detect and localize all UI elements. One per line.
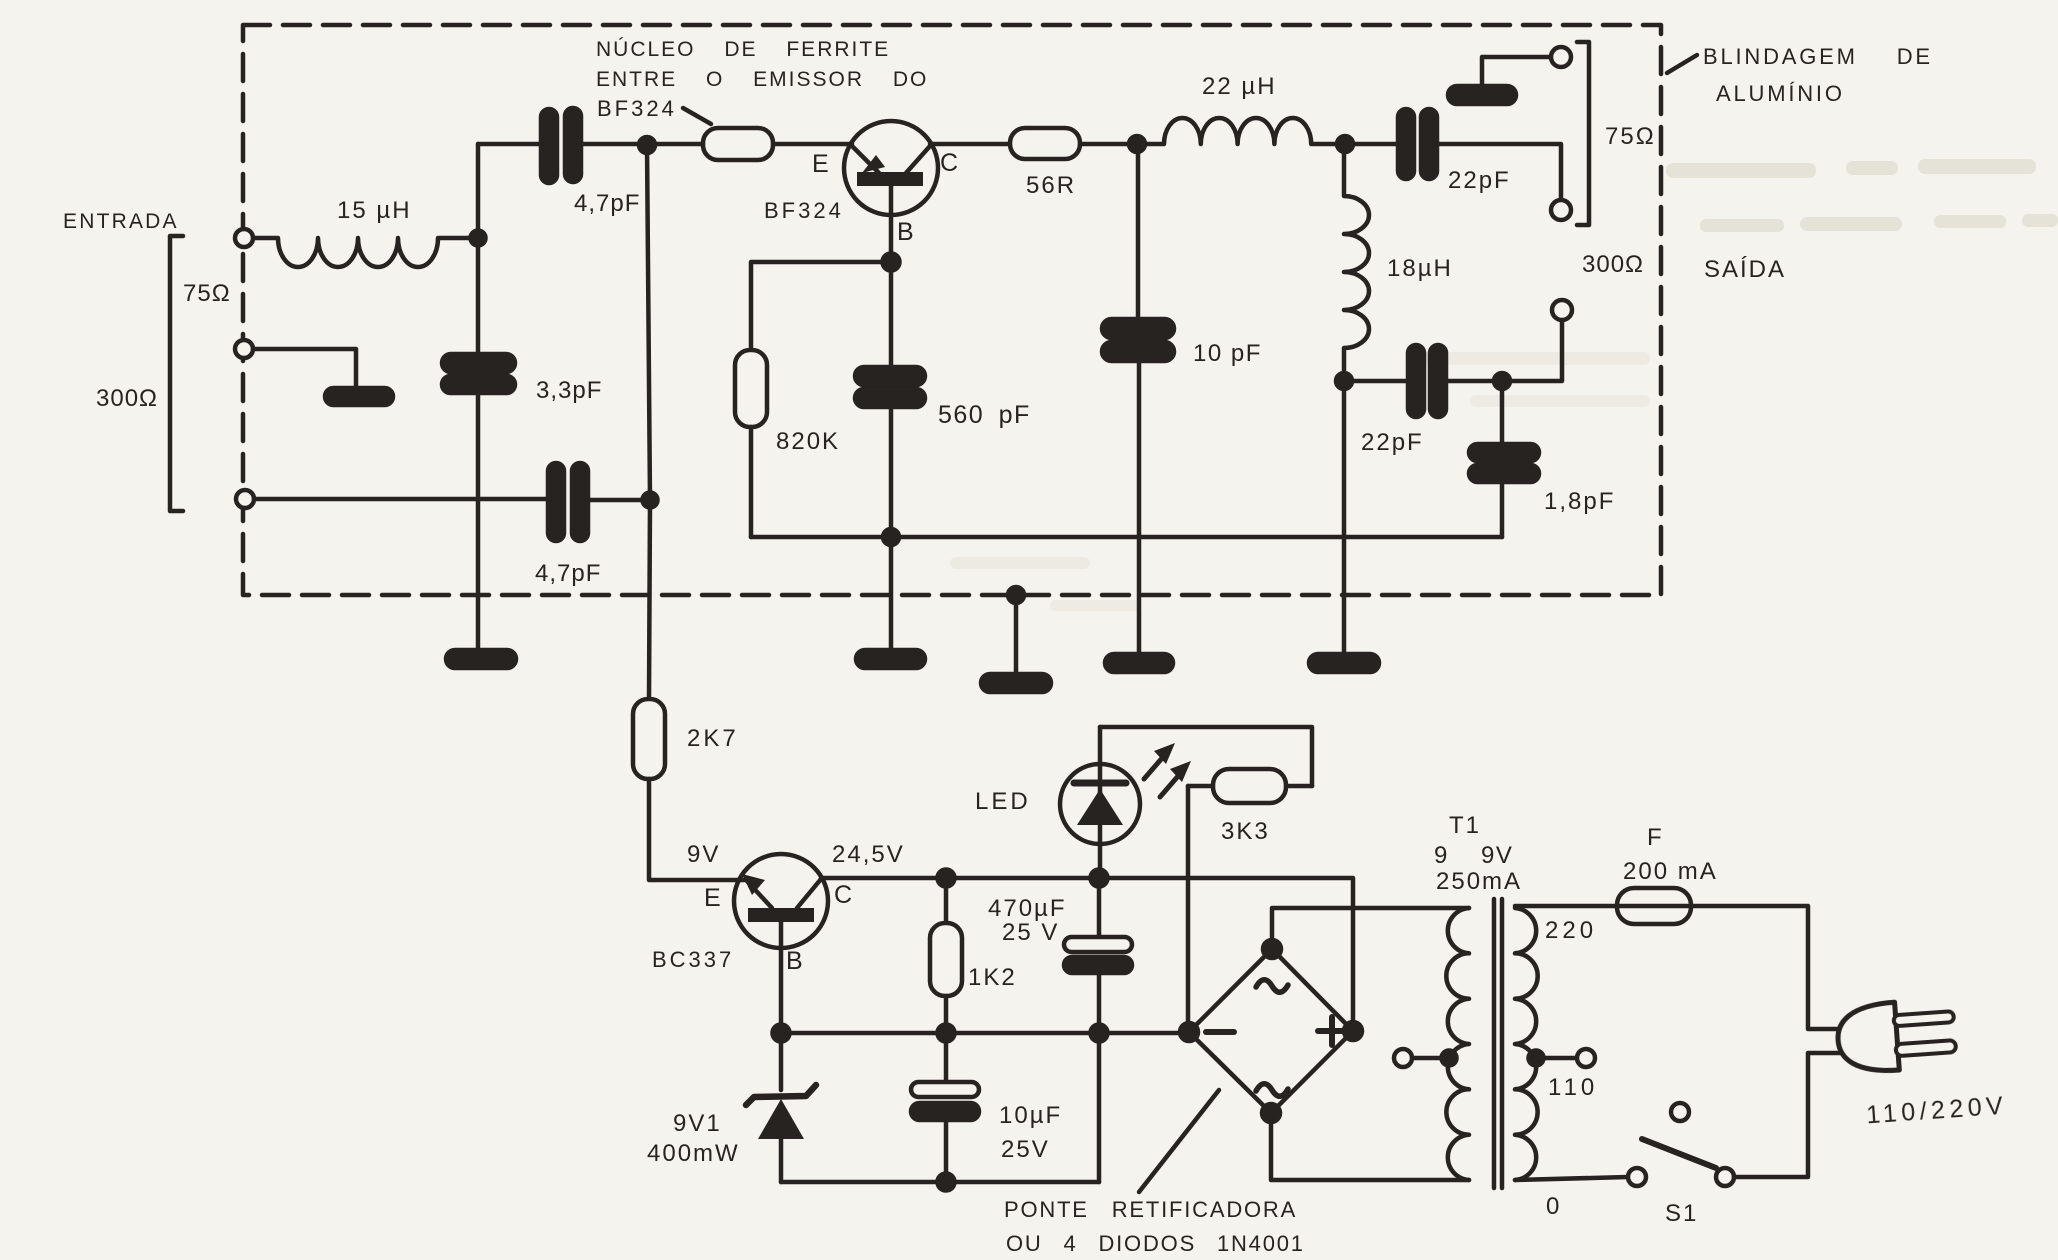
svg-text:820K: 820K [776,428,840,455]
svg-text:22 µH: 22 µH [1202,73,1277,100]
svg-text:BF324: BF324 [764,198,844,223]
input terminal 1 (75 ohm) [235,229,253,247]
ground bar below 18uH node [1309,654,1379,672]
wire: node down to ground [1342,381,1347,654]
svg-text:OU 4 DIODOS 1N4001: OU 4 DIODOS 1N4001 [1006,1231,1305,1256]
label 24,5V [832,841,905,868]
label 0 tap [1546,1193,1559,1220]
capacitor 560pF [855,262,1031,429]
wire: switch to mains plug [1734,1053,1843,1177]
svg-text:2K7: 2K7 [687,725,739,752]
svg-text:E: E [704,884,721,912]
svg-text:4,7pF: 4,7pF [574,190,640,217]
inductor 15uH [253,197,478,267]
svg-text:250mA: 250mA [1436,868,1522,895]
node: primary 110V tap [1529,1051,1544,1066]
mains plug 110/220V [1836,995,2009,1131]
svg-text:18µH: 18µH [1387,255,1453,282]
ground bar below 3.3pF [446,650,516,668]
svg-text:B: B [786,947,803,975]
wire: lower 4.7pF to column node [588,498,650,503]
node: 10uF bottom on return bus [938,1174,955,1191]
output bracket 75 ohm [1577,42,1589,225]
svg-text:4,7pF: 4,7pF [535,560,601,587]
label NUCLEO DE FERRITE note [596,38,928,124]
label ENTRADA [63,210,179,233]
switch S1 [1628,1103,1734,1227]
wire: junction up-corner to 4.7pF and down to 3.3pF [478,144,541,355]
capacitor 470uF electrolytic [988,878,1132,1182]
svg-text:BF324: BF324 [597,96,677,121]
chassis plate at input terminal 2 [325,388,393,405]
wire: 110V tap lead [1536,1056,1577,1061]
wire: 4.7pF to ferrite bead node [581,142,647,147]
svg-text:C: C [834,881,852,909]
capacitor 3,3pF [442,354,602,404]
transformer T1 primary winding [1515,908,1538,1180]
node: shield border ground tap [1008,587,1024,603]
terminal: secondary center tap [1394,1049,1412,1067]
shield box: dashed aluminium shielding border [243,25,1661,595]
wire: vertical column x=648 from node down to 2K7 [647,145,650,699]
svg-text:0: 0 [1546,1193,1559,1220]
output terminal (300 ohm) [1552,300,1572,320]
svg-text:22pF: 22pF [1448,167,1511,194]
wire: shield border to ground bar [1014,595,1019,674]
svg-text:BC337: BC337 [652,947,734,972]
svg-text:400mW: 400mW [647,1140,740,1167]
inductor 22uH [1137,73,1345,144]
LED indicator [975,727,1140,878]
fuse F 200mA [1617,824,1718,924]
label 110 tap [1548,1074,1598,1101]
svg-text:200 mA: 200 mA [1623,858,1718,885]
label 300 ohm (output) [1582,251,1644,278]
resistor 820K [735,262,891,537]
input terminal 3 [236,490,254,508]
svg-text:470µF: 470µF [988,895,1067,922]
svg-text:25V: 25V [1001,1136,1050,1163]
svg-text:24,5V: 24,5V [832,841,905,868]
zener diode 9V1 400mW [647,1033,816,1182]
wire: node to ferrite bead [647,142,703,147]
wire: 1.8pF down to internal ground bus [1500,482,1505,537]
node: 18uH / 22pF lower junction [1336,373,1352,389]
node: 15uH / 3.3pF / 4.7pF junction [471,231,486,246]
LED light arrows [1144,743,1191,797]
svg-text:F: F [1647,824,1664,851]
capacitor 22pF (upper output) [1345,109,1511,194]
node: zener top [773,1025,790,1042]
svg-text:ENTRE O EMISSOR DO: ENTRE O EMISSOR DO [596,68,928,91]
wire: 56R to 10pF node [1080,142,1137,147]
svg-text:NÚCLEO DE FERRITE: NÚCLEO DE FERRITE [596,38,890,61]
label 220 tap [1545,917,1597,944]
svg-text:C: C [940,149,958,177]
label 9V [687,841,720,868]
svg-text:B: B [897,218,914,246]
svg-text:SAÍDA: SAÍDA [1704,256,1786,283]
resistor 56R [1010,128,1080,199]
wire: +24.5V main bus from BC337 collector to bridge plus [821,878,1353,1031]
wire: 22pF to 75ohm output terminal [1437,144,1561,200]
svg-text:9V1: 9V1 [673,1110,722,1137]
svg-text:S1: S1 [1665,1200,1698,1227]
node: 1K2 top on main bus [938,870,955,887]
wire: 560pF down through bus to ground [889,407,894,650]
wire: node to 300 ohm output terminal [1502,320,1562,381]
node: 22pF / 1.8pF / 300ohm output junction [1494,373,1510,389]
svg-text:110/220V: 110/220V [1865,1092,2008,1130]
svg-text:15 µH: 15 µH [337,197,412,224]
node: 470uF on minus bus [1091,1025,1108,1042]
wire: primary top to fuse and mains [1515,906,1843,1029]
node: bridge AC top vertex [1263,940,1281,958]
wire: terminal to output ground plate [1482,57,1551,86]
svg-text:75Ω: 75Ω [1605,123,1656,150]
node: 560pF on ground bus [883,529,899,545]
label SAIDA [1704,256,1786,283]
capacitor 4,7pF (top) [541,108,640,217]
node: LED / 470uF top on main bus [1091,870,1108,887]
capacitor 10uF electrolytic [911,1033,1062,1182]
svg-text:10 pF: 10 pF [1193,340,1262,367]
label 75 ohm (output) [1605,123,1656,150]
svg-text:ALUMÍNIO: ALUMÍNIO [1716,81,1845,106]
label BLINDAGEM DE ALUMINIO [1667,44,1933,106]
wire: LED top loop to 3K3 [1100,727,1312,786]
svg-text:3,3pF: 3,3pF [536,377,602,404]
node: BF324 base junction [883,254,900,271]
capacitor 22pF (lower output) [1344,345,1446,456]
node: bridge AC bottom vertex [1262,1104,1280,1122]
input terminal 2 [235,340,253,358]
wire: internal ground bus [751,535,1502,540]
svg-text:BLINDAGEM DE: BLINDAGEM DE [1703,44,1933,69]
ground plate at 75 ohm output [1448,86,1516,104]
ground bar below 10pF [1105,654,1173,672]
wire: center tap lead [1412,1056,1449,1061]
resistor 2K7 [633,699,739,779]
output terminal (75 ohm ground) [1551,47,1571,67]
transformer T1 core [1494,899,1502,1188]
resistor 3K3 [1188,769,1312,845]
svg-text:110: 110 [1548,1074,1598,1101]
wire: 2K7 down and right to BC337 emitter [649,779,744,880]
svg-text:22pF: 22pF [1361,429,1424,456]
resistor 1K2 [930,878,1017,1033]
node: bridge minus vertex [1180,1023,1198,1041]
capacitor 10pF [1102,319,1262,367]
label 75 ohm (input) [183,280,231,307]
node: bridge plus vertex [1344,1022,1362,1040]
bridge rectifier diamond [1189,949,1353,1113]
wire: 3K3 down to bridge minus [1186,786,1191,1032]
svg-text:E: E [812,150,829,178]
svg-text:56R: 56R [1026,172,1076,199]
label T1 ratings [1434,812,1522,895]
svg-text:T1: T1 [1449,812,1481,839]
svg-text:LED: LED [975,788,1031,815]
svg-text:25 V: 25 V [1002,919,1059,946]
wire: 3.3pF down to ground [476,393,481,650]
node: 22uH / 22pF / 18uH junction [1337,136,1353,152]
svg-text:300Ω: 300Ω [1582,251,1644,278]
svg-text:560 pF: 560 pF [938,401,1031,429]
wire: bottom return bus [781,1180,1099,1185]
svg-text:PONTE RETIFICADORA: PONTE RETIFICADORA [1004,1197,1297,1222]
label PONTE RETIFICADORA with pointer [1004,1090,1305,1256]
svg-text:9V: 9V [687,841,720,868]
ferrite bead on emitter lead [703,128,773,160]
svg-text:9 9V: 9 9V [1434,842,1513,869]
svg-text:1K2: 1K2 [968,964,1017,991]
svg-text:ENTRADA: ENTRADA [63,210,179,233]
svg-text:3K3: 3K3 [1221,818,1270,845]
svg-text:75Ω: 75Ω [183,280,231,307]
transistor Q2 BC337 (NPN) [652,854,852,1033]
output terminal (75 ohm signal) [1551,200,1571,220]
node: secondary center tap [1442,1051,1457,1066]
wire: bridge bottom to transformer secondary [1271,1113,1469,1180]
ground bar below shield border [981,674,1051,692]
node: lower 4.7pF / column junction [643,493,658,508]
svg-text:10µF: 10µF [999,1102,1062,1129]
svg-text:300Ω: 300Ω [96,385,158,412]
transistor Q1 BF324 (PNP) [764,121,958,262]
input bracket [170,236,183,511]
faint print bleed-through marks [950,159,2058,611]
wire: node down to 10pF [1136,144,1141,320]
wire: 22pF to 1.8pF node [1446,379,1502,384]
label 300 ohm (input) [96,385,158,412]
transformer T1 secondary winding [1446,908,1469,1180]
svg-text:1,8pF: 1,8pF [1544,488,1615,515]
node at 4.7pF / 2K7 column [639,137,655,153]
inductor 18uH [1344,152,1453,381]
capacitor 1,8pF [1469,381,1615,515]
node: 56R / 10pF / 22uH junction [1129,136,1145,152]
wire: 10pF down to ground [1137,361,1142,654]
terminal: primary 110V tap [1577,1049,1595,1067]
wire: BF324 collector to 56R [930,142,1010,147]
node: 1K2 bottom / 10uF top [938,1025,955,1042]
ground bar below 560pF [856,650,925,668]
wire: ferrite bead to BF324 emitter [773,142,852,147]
wire: bridge top to transformer secondary [1272,908,1469,949]
capacitor 4,7pF (lower) [535,463,601,587]
svg-text:220: 220 [1545,917,1597,944]
wire: input terminal 3 to lower 4.7pF [254,497,548,502]
wire: primary bottom to switch [1515,1177,1628,1180]
wire: minus ground bus [781,1031,1188,1036]
wire: input terminal 2 stub to chassis plate [253,349,356,388]
